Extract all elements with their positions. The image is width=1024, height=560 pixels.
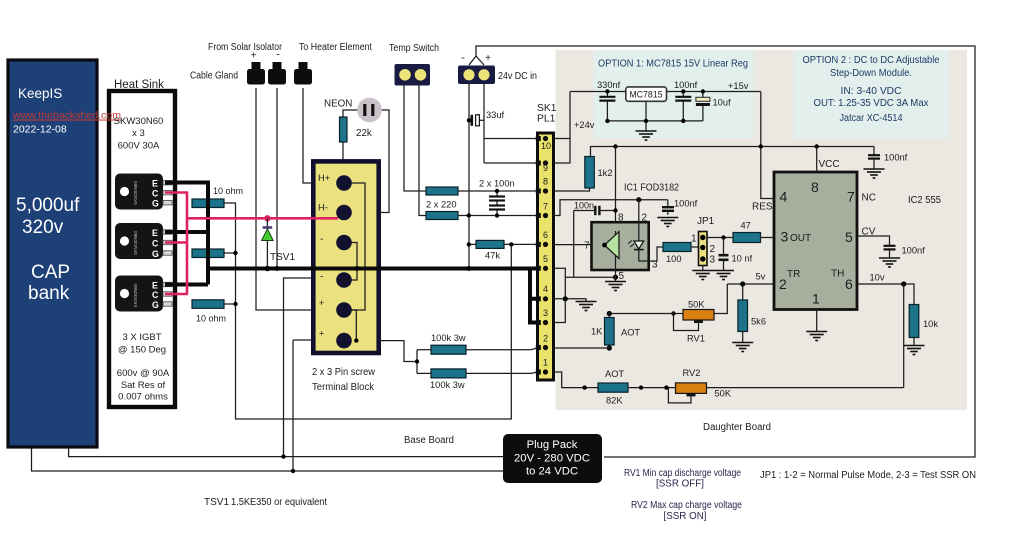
svg-text:10 ohm: 10 ohm [196, 314, 226, 324]
capacitor 2x100n stack [496, 191, 498, 216]
svg-text:1.5KE350 or equivalent: 1.5KE350 or equivalent [231, 497, 327, 508]
svg-text:5: 5 [845, 229, 853, 245]
svg-text:1: 1 [691, 234, 697, 245]
svg-text:AOT: AOT [621, 328, 640, 338]
svg-text:7: 7 [543, 202, 548, 212]
svg-text:2 x 100n: 2 x 100n [479, 179, 515, 189]
capacitor 100nf vcc [873, 147, 875, 169]
svg-text:20V - 280 VDC: 20V - 280 VDC [514, 453, 590, 465]
svg-text:+: + [251, 51, 257, 62]
svg-text:Sat Res of: Sat Res of [121, 380, 166, 391]
svg-text:+15v: +15v [728, 81, 749, 91]
wire IC1 pin5 ground [615, 260, 617, 282]
svg-text:2: 2 [710, 244, 716, 255]
wire plug pack output 1 [69, 446, 503, 457]
wire +15v down to VCC rail and RES [761, 92, 774, 199]
svg-text:100: 100 [666, 254, 682, 264]
wire 24v plus down [483, 84, 485, 163]
svg-text:82K: 82K [606, 396, 623, 406]
wire option1 bottom rail [607, 101, 703, 131]
pink collector stub C2 [165, 241, 188, 244]
resistor 82K [598, 383, 628, 392]
igbt print marks [133, 181, 138, 308]
node TSV1 top [264, 215, 270, 221]
wire gland2 solar minus down to bus [276, 88, 278, 269]
svg-text:E: E [152, 280, 158, 290]
plug pack box [503, 434, 602, 483]
heat sink box [109, 91, 175, 407]
svg-text:7: 7 [584, 241, 590, 252]
svg-text:TR: TR [787, 269, 800, 280]
IC1 led [638, 200, 640, 241]
wire block link row5 to row6 [350, 310, 356, 341]
svg-text:RV1 Min cap discharge voltage: RV1 Min cap discharge voltage [624, 468, 741, 479]
svg-text:10k: 10k [923, 319, 938, 329]
capacitor 100nf opt1 [682, 92, 684, 121]
opto IC1 FOD3182 [592, 222, 649, 270]
potentiometer RV2 50K [676, 383, 707, 394]
svg-text:MC7815: MC7815 [629, 90, 662, 100]
wire plug pack output 2 [32, 446, 504, 471]
svg-text:Heat Sink: Heat Sink [114, 79, 164, 91]
wire VCC rail [591, 147, 875, 157]
svg-text:AOT: AOT [605, 369, 624, 379]
wire row6 to 100k resistors [351, 341, 417, 374]
pink wire to H- [186, 217, 338, 220]
wire 100n left to ground [573, 211, 575, 278]
svg-text:G: G [152, 249, 159, 259]
neon lamp [357, 98, 382, 123]
svg-text:10uf: 10uf [713, 98, 732, 108]
svg-text:VCC: VCC [819, 159, 840, 170]
capacitor 10nf [723, 238, 725, 271]
svg-text:8: 8 [811, 179, 819, 195]
svg-text:+24v: +24v [574, 120, 595, 130]
resistor 100k 3w top [417, 349, 431, 351]
svg-text:6: 6 [845, 276, 853, 292]
wire 555 cv to cap [857, 236, 890, 258]
svg-text:Cable Gland: Cable Gland [190, 71, 238, 82]
svg-text:IN: 3-40 VDC: IN: 3-40 VDC [841, 86, 902, 97]
svg-text:2 x 3 Pin screw: 2 x 3 Pin screw [312, 367, 375, 378]
svg-text:10 ohm: 10 ohm [213, 186, 243, 196]
svg-text:SKW30N60: SKW30N60 [133, 283, 138, 307]
wire 82K to RV2 [628, 387, 676, 389]
wire vcc down to IC1 pin8 [615, 147, 617, 232]
svg-text:7: 7 [847, 189, 855, 205]
wire terminal block row6 left [293, 339, 344, 341]
svg-text:330nf: 330nf [597, 80, 621, 90]
svg-text:IC2 555: IC2 555 [908, 195, 941, 206]
svg-text:24v DC in: 24v DC in [498, 71, 537, 82]
regulator MC7815 [626, 87, 667, 101]
thick emitter stub E3 [165, 283, 208, 287]
svg-text:-: - [461, 52, 465, 64]
resistor 100k 3w bottom [417, 372, 431, 374]
wire 22k to H+ [342, 142, 344, 179]
svg-text:0.007 ohms: 0.007 ohms [118, 392, 168, 403]
svg-text:TSV1: TSV1 [270, 252, 295, 263]
svg-text:NC: NC [862, 193, 876, 204]
svg-text:PL1: PL1 [537, 114, 556, 125]
svg-text:IC1 FOD3182: IC1 FOD3182 [624, 183, 679, 194]
terminal block 2x3 [313, 161, 378, 353]
svg-text:OUT: 1.25-35 VDC 3A Max: OUT: 1.25-35 VDC 3A Max [814, 98, 929, 109]
wire neon left to 22k [343, 110, 358, 117]
svg-text:2022-12-08: 2022-12-08 [13, 124, 67, 136]
svg-text:33uf: 33uf [486, 110, 505, 120]
svg-text:600v @ 90A: 600v @ 90A [117, 368, 170, 379]
wire 1K bottom to SK1 pin2 [554, 314, 610, 349]
svg-text:SKW30N60: SKW30N60 [133, 231, 138, 255]
cable gland 3 [294, 62, 312, 85]
svg-text:Step-Down Module.: Step-Down Module. [830, 68, 912, 79]
terminal circles [336, 175, 352, 191]
wire JP1 pin1 to 47 [707, 237, 733, 239]
capacitor 33uf [470, 115, 473, 126]
svg-text:E: E [152, 228, 158, 238]
wire apex to plus terminal [476, 56, 484, 65]
ground pin4 [576, 302, 597, 311]
temp switch [395, 64, 431, 86]
wire block link row3 row4 to bus [351, 243, 357, 281]
svg-text:8: 8 [543, 177, 548, 187]
svg-text:50K: 50K [688, 300, 705, 310]
svg-text:100nf: 100nf [902, 246, 926, 256]
svg-text:100nf: 100nf [674, 199, 698, 209]
svg-text:@ 150 Deg: @ 150 Deg [118, 345, 166, 356]
capacitor 10uf [702, 92, 704, 121]
svg-text:CAP: CAP [31, 262, 70, 283]
svg-text:RV1: RV1 [687, 334, 705, 344]
svg-text:SKW30N60: SKW30N60 [114, 116, 164, 127]
svg-text:320v: 320v [22, 217, 64, 238]
resistor 10 ohm R1 [192, 199, 224, 208]
svg-text:+: + [319, 298, 324, 308]
wire +24v rail [570, 91, 761, 93]
daughter board background [556, 50, 968, 410]
wire SK1 pin5 to ground link [554, 268, 566, 299]
thick negative bus to SK1 pin5 [206, 267, 540, 271]
wire SK1 pin3 link [554, 299, 566, 323]
wire apex to minus terminal [469, 56, 476, 65]
svg-text:2 x 220: 2 x 220 [426, 200, 457, 210]
thick emitter bus vertical [206, 181, 210, 285]
CAP bank box [8, 60, 97, 447]
wire temp switch right to 220b [419, 85, 426, 216]
wire 220a to SK1 pin8 [458, 190, 541, 192]
wire 10v down to RV2 line [903, 284, 905, 388]
svg-text:3: 3 [652, 260, 658, 271]
wire 555 TR 5v node [727, 283, 774, 285]
svg-text:+: + [319, 329, 324, 339]
svg-text:10v: 10v [870, 273, 885, 283]
wire 5v to RV1 right [714, 284, 727, 314]
resistor 1K [605, 318, 615, 346]
connector SK1 PL1 strip [538, 133, 554, 380]
24v DC in connector [458, 66, 495, 85]
svg-text:1K: 1K [591, 327, 603, 337]
pink collector wire C1 [165, 193, 187, 295]
svg-text:10: 10 [541, 141, 551, 151]
svg-text:[SSR ON]: [SSR ON] [663, 511, 706, 522]
svg-text:SK1: SK1 [537, 103, 557, 114]
svg-text:H+: H+ [318, 173, 330, 183]
wire 24v minus down to bus [468, 84, 470, 269]
svg-text:Jatcar XC-4514: Jatcar XC-4514 [840, 113, 903, 124]
svg-text:Plug Pack: Plug Pack [527, 439, 578, 451]
wire 1K top to RV1 [609, 313, 683, 315]
wire 1k2 to SK1 pin8 [554, 188, 590, 191]
resistor 22k [340, 117, 348, 142]
svg-text:C: C [152, 238, 159, 248]
wire 555 vcc [816, 147, 818, 173]
wire gate feed loop pin6 to 10ohm resistors [224, 203, 512, 419]
svg-text:C: C [152, 188, 159, 198]
svg-text:100n: 100n [574, 201, 594, 211]
resistor 1k2 [585, 157, 595, 189]
wire SK1 pin6 to IC1 pin7 [554, 244, 605, 246]
svg-text:www.thebackshed.com: www.thebackshed.com [12, 110, 121, 122]
svg-text:100k 3w: 100k 3w [431, 333, 466, 343]
svg-text:-: - [276, 49, 280, 61]
svg-text:50K: 50K [715, 389, 732, 399]
resistor 10k [909, 305, 919, 338]
wire block link H+ to row5 [351, 183, 365, 310]
resistor 10 ohm R3 [192, 300, 224, 309]
svg-text:From Solar Isolator: From Solar Isolator [208, 42, 283, 53]
svg-text:to 24 VDC: to 24 VDC [526, 466, 578, 478]
capacitor 100nf on pin2 line [667, 200, 669, 215]
svg-text:-: - [320, 272, 323, 283]
transistor Q3 IGBT [115, 276, 172, 312]
svg-text:TH: TH [831, 269, 844, 280]
svg-text:KeepIS: KeepIS [18, 86, 62, 101]
resistor 100 [663, 243, 691, 252]
SK1 pin numbers [541, 141, 551, 368]
resistor 47k [469, 243, 476, 245]
svg-text:G: G [152, 198, 159, 208]
svg-text:47k: 47k [485, 251, 500, 261]
wire 10ohm R3 to gate bus [224, 303, 236, 305]
svg-text:OPTION 1: MC7815 15V Linear R: OPTION 1: MC7815 15V Linear Reg [598, 59, 748, 70]
svg-text:RES: RES [752, 202, 773, 213]
capacitor 100n IC1 [574, 210, 616, 212]
timer IC2 555 [774, 172, 857, 310]
thick emitter stub E1 [165, 181, 208, 185]
wire SK1 pins 10 9 to +24v rail [554, 139, 571, 164]
svg-text:10 nf: 10 nf [732, 254, 753, 264]
svg-text:600V 30A: 600V 30A [118, 141, 160, 152]
svg-text:-: - [320, 234, 323, 245]
SK1 pin dots [543, 136, 548, 375]
svg-text:5v: 5v [756, 272, 766, 282]
wire SK1 pin1 to 82K [554, 372, 599, 388]
svg-text:3: 3 [543, 308, 548, 318]
svg-text:SKW30N60: SKW30N60 [133, 181, 138, 205]
svg-text:To Heater Element: To Heater Element [299, 42, 372, 53]
svg-text:1: 1 [543, 358, 548, 368]
wire 220b to SK1 pin7 [458, 215, 541, 217]
diode TSV1 [266, 218, 268, 227]
wire 10ohm R2 to gate bus [224, 252, 236, 254]
svg-text:1: 1 [812, 291, 820, 307]
svg-text:C: C [152, 290, 159, 300]
wire 555 pin1 ground [816, 310, 818, 332]
svg-text:22k: 22k [356, 128, 372, 139]
svg-text:100k 3w: 100k 3w [430, 380, 465, 390]
wire to IC1 pin5 ground node [565, 276, 615, 278]
transistor Q2 IGBT [115, 223, 172, 259]
potentiometer RV1 50K [683, 310, 714, 321]
svg-text:Temp Switch: Temp Switch [389, 43, 439, 54]
resistor 47 [733, 233, 761, 243]
wire gland1 solar plus down to terminal block row5 [256, 88, 337, 310]
wire SK1 pin4 to ground [554, 299, 587, 301]
svg-text:OPTION 2 : DC to DC Adjustable: OPTION 2 : DC to DC Adjustable [803, 55, 940, 66]
OPTION 1 box [594, 50, 754, 138]
ground pin2 line cap [657, 218, 678, 227]
svg-text:JP1: JP1 [697, 216, 715, 227]
resistor 5k6 [742, 284, 744, 300]
svg-text:5,000uf: 5,000uf [16, 195, 80, 216]
wire plus to SK1 pin10 [484, 138, 541, 140]
svg-text:G: G [152, 300, 159, 310]
SK1 pin pads [536, 136, 541, 375]
wire IC1 pin3 out [639, 247, 663, 261]
svg-text:6: 6 [543, 230, 548, 240]
wire SK1 pin7 to IC1 pin2 line [554, 200, 668, 216]
cable gland 2 [268, 62, 286, 85]
wire 24v top loop from plug pack around to DC-in apex [476, 46, 975, 457]
svg-text:H-: H- [318, 203, 328, 213]
resistor 2x220 b [426, 212, 458, 220]
svg-text:TSV1: TSV1 [204, 497, 229, 508]
svg-text:3 X IGBT: 3 X IGBT [122, 332, 161, 343]
svg-text:4: 4 [780, 189, 788, 205]
wire RV2 to 10v vertical [707, 387, 904, 389]
svg-text:2: 2 [543, 334, 548, 344]
transistor Q1 IGBT [115, 174, 172, 210]
svg-text:5k6: 5k6 [751, 317, 766, 327]
wire gland3 heater down to H+ [303, 88, 337, 183]
wire row4 minus down to plug pack line [284, 278, 338, 457]
svg-text:x 3: x 3 [132, 128, 145, 139]
OPTION 2 box [794, 50, 949, 139]
wire plus to SK1 pin9 [484, 162, 541, 164]
svg-text:1k2: 1k2 [598, 168, 613, 178]
svg-text:5: 5 [619, 271, 625, 282]
wire temp switch left to 220a [404, 85, 426, 191]
pink collector stub C3 [165, 293, 188, 296]
wire neon right down to H- [351, 110, 389, 213]
svg-text:JP1 : 1-2 = Normal Pulse Mode,: JP1 : 1-2 = Normal Pulse Mode, 2-3 = Tes… [760, 470, 976, 481]
svg-text:2: 2 [642, 213, 648, 224]
thick branch to SK1 pins 4 and 3 [530, 267, 540, 323]
svg-text:2: 2 [779, 276, 787, 292]
resistor 10 ohm R2 [192, 249, 224, 258]
cable gland 1 [247, 62, 265, 85]
svg-text:[SSR OFF]: [SSR OFF] [656, 479, 704, 490]
resistor 2x220 a [426, 187, 458, 195]
svg-text:Terminal Block: Terminal Block [312, 382, 375, 393]
svg-text:+: + [485, 53, 491, 64]
svg-text:100nf: 100nf [674, 80, 698, 90]
svg-text:100nf: 100nf [884, 153, 908, 163]
svg-text:47: 47 [741, 221, 751, 231]
thick emitter stub E2 [165, 230, 208, 234]
svg-text:NEON: NEON [324, 99, 352, 110]
svg-text:E: E [152, 178, 158, 188]
wire 555 TH 10v node [857, 284, 914, 305]
svg-text:RV2 Max cap charge voltage: RV2 Max cap charge voltage [631, 500, 742, 511]
ground MC7815 [636, 131, 657, 140]
svg-text:bank: bank [28, 283, 70, 304]
wire row6 branch down to plug pack line2 [292, 340, 294, 471]
capacitor 330nf [606, 92, 608, 121]
svg-text:3: 3 [781, 229, 789, 245]
ground vcc cap [864, 169, 885, 178]
svg-text:8: 8 [618, 213, 624, 224]
jumper JP1 [699, 232, 708, 266]
svg-text:OUT: OUT [790, 233, 811, 244]
svg-text:5: 5 [543, 254, 548, 264]
svg-text:4: 4 [543, 284, 548, 294]
svg-text:Daughter Board: Daughter Board [703, 422, 771, 433]
svg-text:Base Board: Base Board [404, 435, 454, 446]
svg-text:CV: CV [862, 227, 876, 238]
svg-text:RV2: RV2 [683, 368, 701, 378]
svg-text:3: 3 [710, 255, 716, 266]
svg-text:9: 9 [543, 163, 548, 173]
